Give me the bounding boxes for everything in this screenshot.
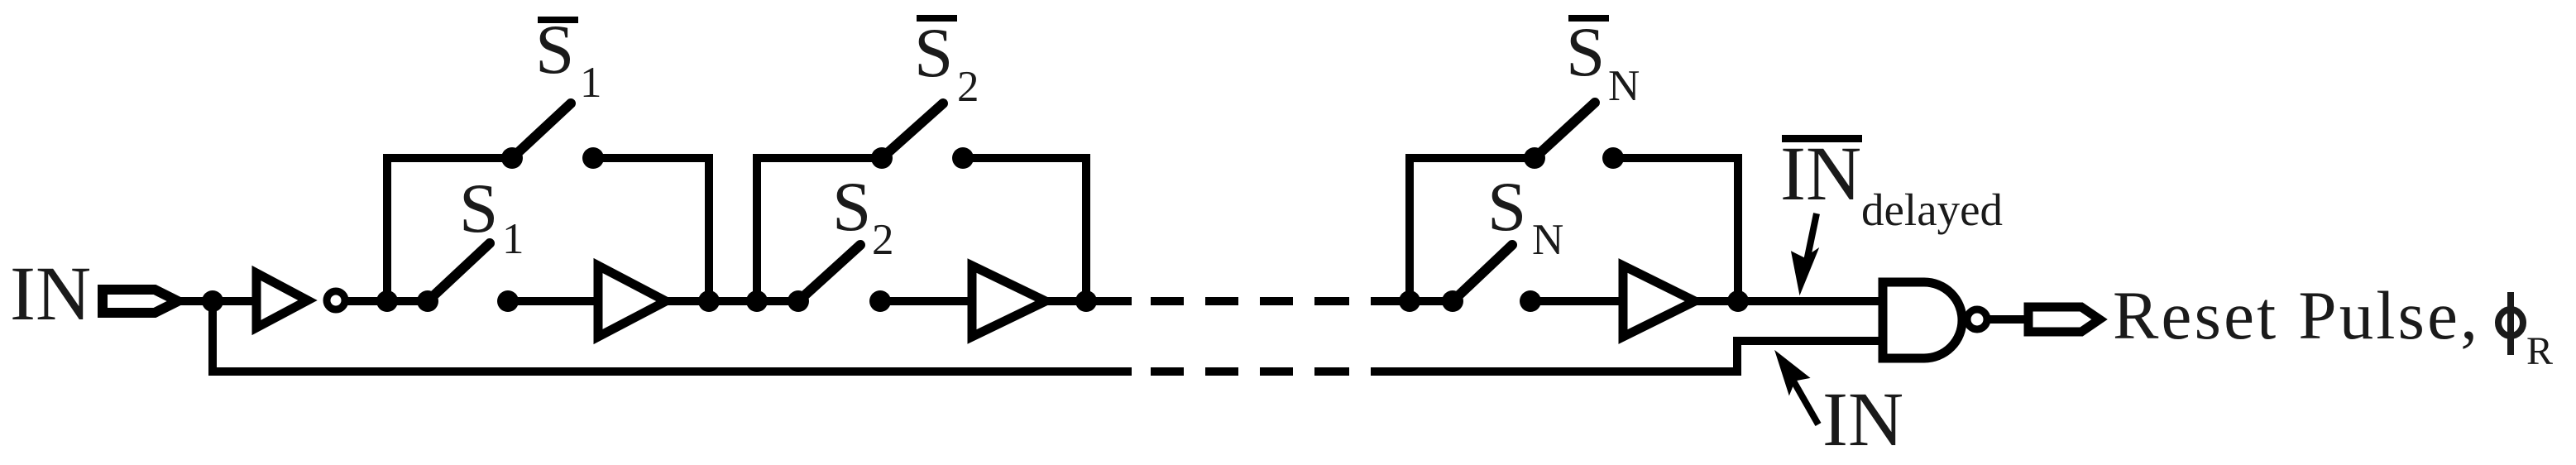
switch S2	[788, 245, 891, 312]
wire: SN to inverter UN	[1530, 297, 1625, 305]
svg-text:S: S	[1487, 168, 1526, 246]
svg-text:Reset Pulse,: Reset Pulse,	[2113, 277, 2480, 353]
svg-text:IN: IN	[1780, 132, 1861, 217]
node B: U2 output / bypass1 return	[698, 290, 720, 312]
svg-text:IN: IN	[10, 252, 91, 337]
svg-text:R: R	[2526, 329, 2553, 373]
node T1: bypass tap	[376, 290, 398, 312]
label INbar_delayed	[1780, 132, 2003, 235]
NAND gate U5	[1883, 282, 1987, 358]
label S2	[832, 168, 894, 264]
switch S1bar	[501, 103, 604, 169]
svg-text:S: S	[535, 11, 574, 89]
svg-text:1: 1	[580, 59, 602, 107]
inverter UN	[1623, 266, 1695, 337]
wire: U1 bubble to switch S1 left contact	[345, 297, 428, 305]
inverter U1	[256, 273, 345, 328]
label S1	[459, 170, 524, 263]
wire: dashed bottom line (continuation dots)	[1151, 367, 1349, 376]
svg-text:2: 2	[872, 216, 894, 264]
node T2: bypass tap	[746, 290, 768, 312]
wire: main line into stage N	[1371, 297, 1453, 305]
wire: input port to inverter U1	[178, 297, 258, 305]
input port IN	[103, 290, 178, 313]
svg-text:N: N	[1608, 62, 1640, 110]
svg-text:S: S	[1566, 13, 1605, 91]
bypass wire SNbar left leg	[1410, 158, 1535, 301]
inverter U3	[972, 266, 1046, 337]
feedback wire: input node down and along bottom	[213, 301, 1132, 372]
switch S2bar	[871, 103, 974, 169]
svg-text:IN: IN	[1822, 377, 1903, 461]
wire: dashed main line (continuation dots)	[1151, 297, 1349, 305]
svg-text:S: S	[914, 14, 953, 92]
label SNbar	[1566, 13, 1640, 110]
switch S1	[417, 243, 519, 312]
svg-text:S: S	[459, 170, 498, 247]
label SN	[1487, 168, 1563, 264]
svg-text:2: 2	[957, 63, 979, 111]
inverter U2	[598, 266, 666, 337]
wire: S2 to inverter U3	[880, 297, 974, 305]
output port Reset Pulse	[2028, 307, 2100, 332]
svg-text:S: S	[832, 168, 871, 246]
svg-text:delayed: delayed	[1861, 185, 2003, 235]
bypass wire S1bar right leg	[593, 158, 709, 301]
node C: U3 output / bypass2 return	[1075, 290, 1097, 312]
wire: U3 output to dashed break	[1046, 297, 1132, 305]
label phi symbol	[2498, 292, 2523, 355]
node: input junction	[202, 290, 223, 312]
node D: UN output / bypassN return	[1727, 290, 1749, 312]
node TN: bypass tap	[1399, 290, 1420, 312]
wire: UN output to NAND gate	[1695, 297, 1883, 305]
bypass wire S1bar left leg	[387, 158, 512, 301]
bypass wire SNbar right leg	[1613, 158, 1738, 301]
label S1bar	[535, 11, 602, 107]
arrow: INbar_delayed to upper NAND input wire	[1793, 213, 1817, 291]
switch SN	[1442, 245, 1541, 312]
svg-text:1: 1	[502, 215, 524, 263]
label S2bar	[914, 14, 979, 111]
wire: U2 output to switch S2 left contact	[666, 297, 798, 305]
svg-text:N: N	[1532, 216, 1563, 264]
bypass wire S2bar left leg	[757, 158, 882, 301]
arrow: IN to lower NAND input wire	[1777, 353, 1818, 424]
feedback wire: bottom line to NAND lower input	[1371, 341, 1883, 372]
wire: S1 to inverter U2	[508, 297, 600, 305]
switch SNbar	[1524, 103, 1624, 169]
bypass wire S2bar right leg	[963, 158, 1086, 301]
wire: NAND output to port	[1987, 315, 2028, 324]
